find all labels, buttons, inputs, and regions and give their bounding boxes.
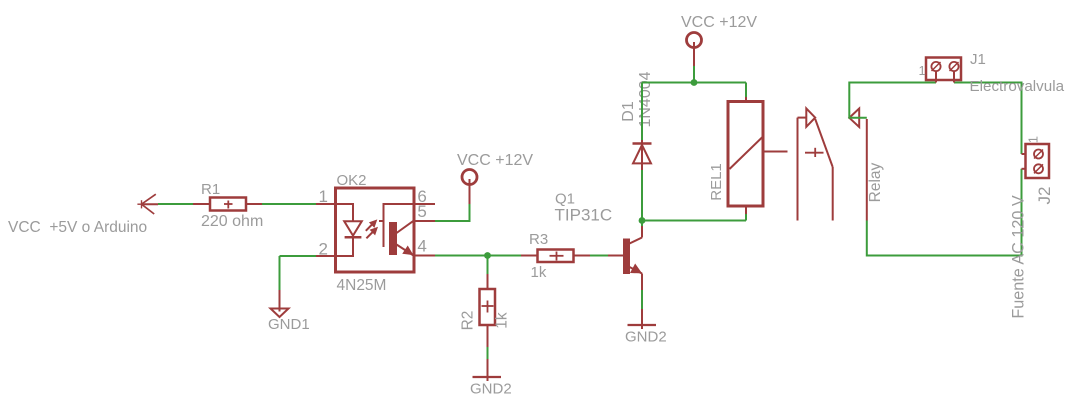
svg-text:GND1: GND1 xyxy=(268,316,310,333)
wire net VCC stem green xyxy=(693,66,695,83)
relay REL1 coil xyxy=(728,97,788,214)
svg-text:GND2: GND2 xyxy=(470,381,512,398)
svg-text:1k: 1k xyxy=(531,264,547,281)
wire net N1 left xyxy=(158,203,193,205)
svg-text:VCC +12V: VCC +12V xyxy=(681,14,757,31)
wire net pin2 to GND1 xyxy=(280,256,317,290)
resistor R3 xyxy=(521,250,590,263)
wire net coil top xyxy=(745,83,747,98)
wire net collector row xyxy=(642,220,746,222)
wire net R2 top xyxy=(487,256,489,275)
supply arrow VCC5 xyxy=(137,194,158,214)
transistor Q1 xyxy=(624,224,643,290)
svg-text:J1: J1 xyxy=(970,51,986,68)
wire net collector stub green xyxy=(641,221,643,227)
pin stubs OK2 right xyxy=(414,204,435,256)
junction dot A xyxy=(484,252,491,259)
svg-text:1: 1 xyxy=(1025,136,1040,143)
pin stub OK2 pin1 xyxy=(316,203,336,205)
relay contact pole xyxy=(798,108,833,220)
svg-text:1k: 1k xyxy=(493,312,510,329)
svg-text:5: 5 xyxy=(417,202,426,221)
wire net emitter xyxy=(641,290,643,309)
ground GND2 under R2 xyxy=(473,359,502,381)
svg-text:Relay: Relay xyxy=(867,162,884,202)
OK2 internal LED xyxy=(336,204,362,256)
resistor R2 xyxy=(480,274,496,347)
wire net D1 bottom xyxy=(641,170,643,221)
OK2 light arrows xyxy=(366,220,377,238)
svg-text:4: 4 xyxy=(417,237,426,256)
wire net coil bottom xyxy=(745,214,747,221)
supply VCC +12V b xyxy=(687,33,702,67)
diode D1 xyxy=(633,140,652,170)
svg-text:D1: D1 xyxy=(620,101,637,122)
svg-text:220 ohm: 220 ohm xyxy=(201,213,263,230)
svg-text:2: 2 xyxy=(319,240,328,259)
svg-text:OK2: OK2 xyxy=(337,172,367,189)
wire net VCC12 top rail xyxy=(642,82,746,84)
OK2 internal phototransistor xyxy=(379,204,414,256)
wire net base row xyxy=(435,255,521,257)
wire net pin5 to VCC12a xyxy=(435,204,470,221)
svg-text:1: 1 xyxy=(319,187,328,206)
svg-text:TIP31C: TIP31C xyxy=(555,206,613,225)
wire net J1 left to contact xyxy=(849,83,936,118)
svg-text:R3: R3 xyxy=(529,231,548,248)
svg-text:1N4004: 1N4004 xyxy=(637,71,654,127)
svg-text:Electrovalvula: Electrovalvula xyxy=(970,78,1065,95)
svg-text:VCC +5V o Arduino: VCC +5V o Arduino xyxy=(8,219,147,236)
connector J1 xyxy=(926,58,961,83)
svg-text:J2: J2 xyxy=(1035,187,1054,205)
svg-text:GND2: GND2 xyxy=(625,329,667,346)
supply VCC +12V a xyxy=(462,170,477,205)
wire net J1 right to J2 top xyxy=(954,83,1022,155)
svg-text:4N25M: 4N25M xyxy=(337,277,387,294)
relay contact arrow right xyxy=(849,109,867,221)
svg-text:REL1: REL1 xyxy=(708,163,725,201)
junction dot C xyxy=(639,217,646,224)
svg-text:R1: R1 xyxy=(201,181,220,198)
svg-text:VCC +12V: VCC +12V xyxy=(457,152,533,169)
resistor R1 xyxy=(193,198,262,211)
wire net contact bottom loop to J2 xyxy=(867,169,1022,256)
optocoupler OK2 box xyxy=(336,188,415,272)
svg-text:R2: R2 xyxy=(459,311,476,331)
svg-text:Fuente AC 120 V: Fuente AC 120 V xyxy=(1010,195,1028,318)
pin stub OK2 pin2 xyxy=(316,255,336,257)
connector J2 xyxy=(1022,144,1050,178)
ground GND2 under Q1 xyxy=(628,309,657,329)
pin stub Q1 base xyxy=(608,255,624,257)
ground GND1 xyxy=(271,290,289,317)
wire net D1 top xyxy=(641,83,643,141)
svg-text:1: 1 xyxy=(919,63,926,78)
junction dot B xyxy=(691,79,698,86)
wire net R2 bottom xyxy=(487,347,489,359)
wire net N1 right xyxy=(262,203,316,205)
wire net R3 to Q1 base xyxy=(590,255,608,257)
